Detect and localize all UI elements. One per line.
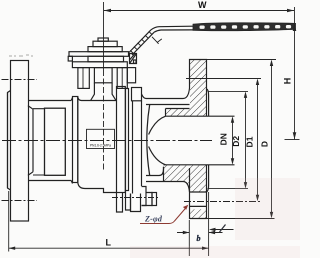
- svg-text:DN: DN: [219, 133, 229, 145]
- pink smudge right: [235, 178, 300, 240]
- top bolt small cluster cap: [134, 60, 137, 63]
- arrow L right: [202, 247, 209, 250]
- label f slash: [220, 225, 226, 233]
- drain boss step1: [142, 187, 147, 206]
- dim b ext left: [188, 220, 190, 256]
- arrow W right: [287, 9, 294, 13]
- seat curve bottom: [149, 147, 166, 165]
- left hub end face: [32, 109, 34, 172]
- right small box: [127, 68, 135, 83]
- drain plug: [152, 193, 157, 206]
- center body bottom edge: [78, 183, 117, 193]
- arrow W left: [104, 9, 111, 13]
- ext line D bottom: [207, 218, 275, 220]
- svg-text:Z-φd: Z-φd: [144, 215, 163, 224]
- bottom wide strip: [131, 194, 141, 212]
- left hub chamfer top: [28, 106, 33, 110]
- arrow f: [209, 228, 216, 231]
- flange left bolt centerline bottom: [2, 200, 38, 202]
- dim D line: [271, 62, 273, 217]
- svg-text:D2: D2: [231, 136, 241, 147]
- top box right of joint: [132, 88, 142, 101]
- ext line D2 bottom: [208, 188, 249, 190]
- svg-text:PN1.6-2.5MPa: PN1.6-2.5MPa: [90, 143, 111, 147]
- dim b ext right: [208, 192, 210, 256]
- center body left edge: [77, 97, 79, 183]
- arrow D1 bottom: [256, 195, 259, 202]
- label Z-phi-d: [144, 215, 163, 224]
- tier3 left end bolt: [68, 56, 72, 61]
- arrow b left: [183, 231, 190, 234]
- stem stack tier2: [88, 47, 122, 52]
- hatch band top boundary: [166, 109, 190, 117]
- dim L ext left: [8, 191, 10, 252]
- hatch plate below slot: [190, 209, 206, 218]
- arrow L left: [9, 247, 16, 250]
- arrow H bottom: [293, 132, 297, 139]
- left post bolt: [78, 68, 89, 89]
- arrow DN top: [231, 116, 234, 123]
- label box: [87, 129, 115, 148]
- right body bottom inner line: [146, 167, 164, 176]
- left body end disc chamfer bottom: [71, 181, 72, 184]
- bore bottom line: [164, 164, 235, 166]
- flange left bolt centerline top: [2, 79, 38, 81]
- ball arc: [147, 105, 150, 176]
- main centerline: [2, 140, 212, 142]
- stem stack tier4: [88, 56, 124, 62]
- drain boss step2: [142, 193, 153, 206]
- stem stack tier0 top nut: [98, 38, 108, 41]
- right body bottom outer line: [146, 182, 190, 193]
- handle shaft ticks: [130, 31, 151, 53]
- left body end disc chamfer top: [71, 98, 72, 101]
- handle bend: [151, 26, 193, 32]
- dim DN line: [232, 118, 234, 163]
- svg-text:D: D: [260, 141, 270, 147]
- stem centerline dashed: [103, 70, 105, 172]
- arrow D2 bottom: [244, 182, 247, 189]
- bonnet neck: [91, 83, 116, 101]
- flange left plate: [11, 61, 29, 222]
- arrow D top: [270, 60, 273, 67]
- right body face: [142, 94, 147, 99]
- hatch hub band top: [166, 109, 191, 116]
- leader Z-phi-d: [140, 207, 187, 224]
- arrow D1 top: [256, 79, 259, 86]
- right body counter flange edge: [132, 101, 134, 194]
- svg-text:b: b: [197, 234, 201, 243]
- handle lower shaft: [129, 30, 154, 55]
- bore top line: [166, 115, 235, 117]
- bolt hole centerline: [184, 201, 261, 203]
- handle grip white slots: [200, 25, 205, 28]
- bottom bolt joint: [117, 193, 123, 213]
- right body top outer line: [146, 88, 190, 99]
- svg-text:D1: D1: [245, 136, 255, 147]
- svg-text:W: W: [198, 0, 207, 10]
- handle bracket: [130, 54, 137, 64]
- dim D2 line: [245, 94, 247, 187]
- arrow D2 top: [244, 91, 247, 98]
- leader arrowhead: [183, 205, 188, 210]
- hatch right flange upper: [190, 60, 206, 116]
- joint flange pair 2: [126, 89, 129, 191]
- stem stack tier5 mounting plate: [72, 62, 127, 68]
- arrow b right: [209, 231, 216, 234]
- stem stack tier3 plate: [69, 52, 129, 57]
- dim D1 line: [257, 81, 259, 200]
- right flange raised face: [207, 89, 209, 192]
- ext line D top: [207, 59, 276, 61]
- right post bolt: [117, 68, 127, 89]
- stem centerline top solid: [103, 2, 105, 70]
- bottom strip 1: [126, 191, 131, 211]
- ext line D2 top: [208, 90, 249, 92]
- svg-text:H: H: [283, 78, 293, 85]
- dim L line: [9, 247, 209, 249]
- dim W line: [104, 10, 294, 12]
- left body tube bottom line: [29, 180, 72, 182]
- seat pocket bottom wall: [163, 167, 165, 182]
- hatch lower band: [164, 165, 206, 191]
- arrow DN bottom: [231, 158, 234, 165]
- dim f line: [211, 229, 234, 231]
- left hub neck to groove line: [33, 109, 45, 175]
- ext line D1 top: [186, 78, 261, 80]
- svg-text:L: L: [106, 238, 112, 248]
- right flange plate outline: [190, 60, 207, 219]
- right body top inner line: [146, 104, 190, 106]
- bolt hole slot lines: [190, 192, 207, 206]
- left hub chamfer bottom: [28, 172, 33, 176]
- center body top edge: [78, 97, 117, 101]
- pink smudge bottom: [130, 246, 300, 258]
- bottom bolt centerline: [112, 197, 158, 199]
- dim W extension right / H line: [294, 7, 296, 140]
- handle latch hook: [152, 37, 162, 44]
- arrow D bottom: [270, 212, 273, 219]
- left body groove band: [45, 108, 66, 175]
- joint flange pair 1: [117, 87, 126, 193]
- gland block: [94, 68, 112, 83]
- stem stack tier1: [93, 41, 117, 46]
- left body tube top line: [29, 100, 72, 102]
- H bottom reference line: [285, 139, 300, 141]
- dim b line arrows outside: [177, 232, 223, 234]
- handle grip dark body: [193, 23, 296, 31]
- flange left raised face: [8, 91, 11, 191]
- faint scan marks above left flange: [9, 55, 33, 56]
- arrow H top: [293, 24, 297, 31]
- left body end disc: [73, 97, 78, 183]
- seat curve top: [149, 116, 166, 134]
